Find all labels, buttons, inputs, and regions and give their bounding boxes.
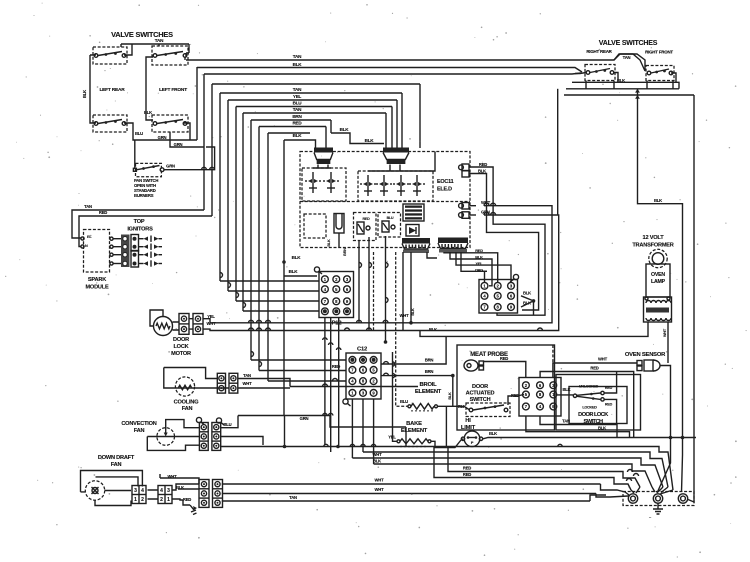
svg-text:BLU: BLU bbox=[223, 422, 231, 427]
wire broil right drop bbox=[445, 406, 447, 447]
bus drops left trapezoid bbox=[326, 120, 384, 148]
ddf connector columns bbox=[199, 480, 209, 508]
svg-text:BLU: BLU bbox=[293, 101, 303, 106]
svg-text:RED: RED bbox=[590, 366, 598, 371]
svg-text:2: 2 bbox=[497, 283, 500, 288]
wire BRN c12 upper bbox=[381, 336, 446, 364]
svg-text:TAN: TAN bbox=[623, 55, 631, 60]
wire broil to das bbox=[438, 406, 470, 409]
wire long TAN top bbox=[186, 54, 645, 70]
svg-text:RED: RED bbox=[183, 497, 191, 502]
wire grn2 bbox=[170, 132, 204, 147]
wire sensor out bbox=[660, 366, 671, 438]
svg-text:WHT: WHT bbox=[481, 200, 491, 205]
spark gap B3 bbox=[400, 175, 402, 181]
down draft conn wires bbox=[105, 490, 159, 499]
wire transformer left down bbox=[420, 322, 648, 336]
svg-text:RED: RED bbox=[605, 386, 613, 390]
svg-text:WHT: WHT bbox=[598, 357, 608, 362]
EOC dashed box bbox=[300, 152, 470, 248]
EOC relay K2 bbox=[378, 213, 401, 238]
wires motor to conn bbox=[173, 319, 194, 330]
P12 row4 fills bbox=[323, 309, 327, 313]
wires trap left to gaps bbox=[313, 165, 331, 169]
svg-text:GRN: GRN bbox=[166, 164, 175, 169]
oven sensor symbol bbox=[637, 361, 642, 366]
meat probe symbol bbox=[464, 360, 478, 371]
svg-text:BLK: BLK bbox=[144, 110, 152, 115]
wires verticals to terminals bbox=[657, 438, 694, 494]
wire y471 bbox=[448, 447, 640, 488]
svg-text:CONVECTION: CONVECTION bbox=[121, 421, 156, 427]
svg-text:1: 1 bbox=[324, 277, 327, 282]
down draft fan circle bbox=[85, 481, 104, 500]
svg-text:4: 4 bbox=[539, 404, 542, 409]
wire pan switch right bbox=[164, 147, 215, 170]
wire rvs y95 bbox=[564, 94, 694, 96]
svg-text:ELEMENT: ELEMENT bbox=[401, 428, 428, 434]
EOC connector bar P2 bbox=[438, 238, 468, 244]
valve switch left rear upper bbox=[93, 47, 127, 64]
convection fan connectors bbox=[199, 423, 208, 451]
svg-text:HI: HI bbox=[465, 418, 471, 424]
svg-text:ELEMENT: ELEMENT bbox=[415, 389, 442, 395]
connector C12 bbox=[346, 353, 381, 399]
wire y477 bbox=[434, 447, 631, 491]
svg-text:BLK: BLK bbox=[523, 291, 531, 296]
svg-text:SPARK: SPARK bbox=[88, 277, 106, 283]
svg-text:FAN: FAN bbox=[182, 406, 193, 412]
svg-text:5: 5 bbox=[525, 392, 528, 397]
wire box4 right vertical bbox=[196, 67, 198, 140]
wire rvs y84 under bbox=[572, 82, 679, 89]
svg-text:9: 9 bbox=[346, 299, 349, 304]
broil feed dashed bbox=[396, 252, 408, 406]
spark gap A2 bbox=[330, 172, 332, 178]
svg-text:BLK: BLK bbox=[292, 255, 302, 260]
spark gap B1 bbox=[367, 175, 369, 181]
spark gap group A box bbox=[302, 168, 346, 201]
svg-text:TAN: TAN bbox=[293, 87, 302, 92]
svg-text:WHT: WHT bbox=[375, 478, 385, 483]
bus wire YEL x228 bbox=[228, 99, 397, 101]
svg-text:FAN: FAN bbox=[111, 462, 122, 468]
svg-text:ELE.D: ELE.D bbox=[437, 187, 452, 193]
wire vertical x694 bbox=[693, 95, 695, 438]
wires dls right bbox=[604, 372, 616, 425]
svg-text:IGNITORS: IGNITORS bbox=[127, 227, 153, 233]
bake element bbox=[400, 439, 428, 444]
wire motor wrap wht bbox=[203, 215, 559, 331]
svg-text:BLK: BLK bbox=[489, 431, 497, 436]
relay connector grid bbox=[479, 280, 518, 314]
svg-text:RED: RED bbox=[99, 210, 107, 215]
wire box2 left down blk bbox=[146, 57, 153, 120]
svg-text:BLK: BLK bbox=[654, 198, 662, 203]
wire spark red bbox=[79, 216, 212, 247]
svg-text:7: 7 bbox=[324, 299, 327, 304]
svg-text:4: 4 bbox=[351, 379, 354, 384]
EOC down wires bbox=[339, 233, 437, 342]
wires conv out bbox=[221, 416, 263, 446]
connector P12 bbox=[319, 272, 354, 318]
plug BLK upper bbox=[462, 171, 469, 177]
oven lamp body bbox=[646, 264, 670, 297]
svg-text:SWITCH: SWITCH bbox=[470, 397, 491, 403]
svg-text:RED: RED bbox=[500, 356, 508, 361]
EOC connector bar P1 bbox=[402, 238, 430, 244]
valve switch left rear lower bbox=[93, 115, 127, 132]
wire grn1 bbox=[124, 123, 197, 140]
valve switch right front bbox=[646, 66, 674, 81]
spark gap A1 bbox=[312, 172, 314, 178]
bake dashes bbox=[400, 446, 428, 448]
svg-text:4: 4 bbox=[483, 293, 486, 298]
door lock switch inner box bbox=[569, 387, 627, 424]
svg-text:6: 6 bbox=[362, 368, 365, 373]
svg-text:ACTUATED: ACTUATED bbox=[466, 391, 495, 397]
svg-text:3: 3 bbox=[167, 488, 170, 494]
wires P2 to relay grid bbox=[444, 252, 471, 271]
wire box2 right to long tan bbox=[184, 57, 186, 60]
svg-text:RED: RED bbox=[292, 121, 302, 126]
wires trap right to gaps bbox=[368, 152, 435, 172]
svg-text:EOC11: EOC11 bbox=[437, 179, 454, 185]
arrow marks rvs bbox=[635, 89, 640, 99]
svg-text:7: 7 bbox=[351, 368, 354, 373]
wires into terminals bbox=[625, 487, 673, 496]
svg-text:8: 8 bbox=[335, 299, 338, 304]
EOC relay K1 bbox=[354, 213, 377, 241]
door lock switch outer box bbox=[556, 375, 641, 431]
bus wire line x212 bbox=[212, 83, 420, 85]
hi limit bbox=[464, 431, 480, 447]
wire BRN c12 lower bbox=[381, 376, 453, 407]
svg-text:2: 2 bbox=[160, 497, 163, 503]
svg-text:WHT: WHT bbox=[663, 328, 667, 337]
wire red plug wrap bbox=[469, 167, 545, 315]
spark gap group B box bbox=[358, 171, 433, 201]
wire pan switch feed bbox=[134, 140, 136, 168]
wire left blk vertical bbox=[90, 55, 96, 123]
convection fan loop bbox=[147, 420, 199, 451]
wire probe to grid bbox=[484, 362, 526, 378]
svg-text:7: 7 bbox=[525, 404, 528, 409]
down draft loop bbox=[81, 471, 143, 506]
EOC divider bbox=[300, 201, 470, 203]
svg-text:SWITCH: SWITCH bbox=[583, 419, 603, 425]
EOC small component bbox=[334, 214, 344, 234]
svg-text:GRN: GRN bbox=[158, 135, 167, 140]
wire bake leads bbox=[393, 352, 398, 441]
svg-text:DOOR: DOOR bbox=[472, 384, 488, 390]
ignitor transformer left bbox=[314, 148, 333, 153]
transformer bbox=[644, 297, 672, 322]
ignitor electrodes bbox=[139, 238, 144, 240]
svg-text:BROIL: BROIL bbox=[419, 382, 437, 388]
svg-text:6: 6 bbox=[539, 383, 542, 388]
ignitor connector blocks bbox=[121, 235, 130, 252]
svg-text:VALVE SWITCHES: VALVE SWITCHES bbox=[111, 30, 173, 39]
door lock motor connectors bbox=[179, 314, 189, 335]
svg-text:MOTOR: MOTOR bbox=[171, 351, 191, 357]
wire cf tan bbox=[238, 379, 290, 389]
wire rvs blk drop bbox=[575, 73, 618, 83]
svg-text:BURNERS: BURNERS bbox=[134, 193, 154, 198]
svg-text:WHT: WHT bbox=[375, 487, 385, 492]
wire RED sensor bbox=[540, 372, 634, 438]
svg-text:RED: RED bbox=[463, 466, 471, 471]
wire y452 bbox=[363, 452, 668, 487]
wire das to grid bbox=[508, 395, 524, 406]
svg-text:TAN: TAN bbox=[243, 373, 251, 378]
broil element bbox=[411, 404, 434, 410]
svg-text:12 VOLT: 12 VOLT bbox=[643, 235, 665, 241]
spark gap B4 bbox=[416, 175, 418, 181]
svg-text:BRN: BRN bbox=[425, 369, 434, 374]
svg-text:7: 7 bbox=[483, 305, 486, 310]
svg-text:C12: C12 bbox=[357, 347, 367, 353]
svg-text:3: 3 bbox=[134, 488, 137, 494]
ignitor transformer right bbox=[383, 148, 409, 153]
plug WHT bbox=[470, 205, 476, 207]
svg-text:OVEN SENSOR: OVEN SENSOR bbox=[625, 352, 666, 358]
door actuated switch bbox=[469, 408, 473, 412]
svg-text:BLK: BLK bbox=[365, 138, 375, 143]
svg-text:2: 2 bbox=[525, 383, 528, 388]
svg-text:3: 3 bbox=[346, 277, 349, 282]
svg-text:P: P bbox=[471, 440, 474, 445]
pan switch bbox=[136, 163, 162, 176]
svg-text:TAN: TAN bbox=[293, 54, 302, 59]
svg-text:TAN: TAN bbox=[155, 38, 164, 43]
C12 flag bbox=[343, 399, 348, 404]
svg-text:8: 8 bbox=[539, 392, 542, 397]
svg-text:1: 1 bbox=[351, 391, 354, 396]
svg-text:RED: RED bbox=[463, 472, 471, 477]
svg-text:YEL: YEL bbox=[293, 94, 302, 99]
svg-text:8: 8 bbox=[362, 379, 365, 384]
spark module pins bbox=[81, 237, 84, 240]
junction dot eoc out bbox=[409, 321, 413, 325]
svg-text:TAN: TAN bbox=[84, 204, 92, 209]
svg-text:WHT: WHT bbox=[373, 452, 383, 457]
wire bake right lead bbox=[431, 441, 446, 447]
C12 row1 fills bbox=[350, 358, 354, 362]
valve switch left front lower bbox=[152, 115, 188, 132]
ddf ground arrow bbox=[190, 505, 194, 510]
wire rvs feeds bbox=[614, 54, 645, 71]
svg-text:GRN: GRN bbox=[174, 142, 183, 147]
svg-text:GRN: GRN bbox=[481, 209, 490, 214]
svg-text:GRN: GRN bbox=[300, 416, 309, 421]
svg-text:VALVE SWITCHES: VALVE SWITCHES bbox=[599, 40, 658, 47]
svg-text:BRN: BRN bbox=[343, 248, 347, 256]
wire valve top tan bbox=[121, 44, 189, 57]
spark module right pins bbox=[110, 237, 113, 240]
svg-text:BRN: BRN bbox=[425, 358, 434, 363]
staircase humps bbox=[628, 470, 633, 473]
junction dot relay bbox=[532, 299, 536, 303]
wire y464 bbox=[374, 464, 652, 487]
junction dot blk bbox=[282, 260, 286, 264]
oven lamp inner circle bbox=[652, 253, 664, 265]
svg-text:BLK: BLK bbox=[411, 308, 415, 316]
svg-text:1: 1 bbox=[167, 497, 170, 503]
door lock motor loop bbox=[150, 310, 163, 326]
wire through convection fan bbox=[147, 436, 199, 438]
wires bus to P12 bbox=[220, 280, 319, 282]
bus wire line9 bbox=[268, 133, 310, 381]
wire conv drop bbox=[405, 427, 407, 447]
door lock switch common bbox=[573, 394, 576, 397]
EOC dashed square bbox=[304, 214, 326, 238]
wire rvs bottom u1 bbox=[586, 81, 673, 89]
svg-text:4: 4 bbox=[141, 488, 144, 494]
wires bus to C12 bbox=[251, 360, 346, 381]
wire y493 step bbox=[596, 494, 628, 498]
bus wire TAN x243 bbox=[243, 112, 386, 114]
door lock switch blade dn bbox=[577, 396, 601, 399]
svg-text:LOCK: LOCK bbox=[173, 344, 188, 350]
svg-text:8: 8 bbox=[497, 305, 500, 310]
down draft conn A bbox=[132, 486, 146, 504]
wire spark tan bbox=[72, 210, 204, 238]
svg-text:BAKE: BAKE bbox=[406, 421, 422, 427]
verticals under C12 bbox=[325, 318, 374, 465]
svg-text:DOOR LOCK: DOOR LOCK bbox=[578, 412, 608, 418]
svg-text:BRN: BRN bbox=[292, 114, 302, 119]
P12 flag bbox=[314, 267, 319, 272]
svg-text:9: 9 bbox=[372, 391, 375, 396]
svg-text:LIMIT: LIMIT bbox=[461, 425, 476, 431]
svg-text:RED: RED bbox=[479, 162, 487, 167]
wire grn bus bbox=[238, 416, 406, 428]
svg-text:6: 6 bbox=[346, 287, 349, 292]
svg-text:3: 3 bbox=[510, 283, 513, 288]
svg-text:RED: RED bbox=[605, 403, 613, 407]
svg-text:BLK: BLK bbox=[448, 392, 452, 400]
svg-text:COOLING: COOLING bbox=[174, 400, 199, 406]
svg-text:2: 2 bbox=[335, 277, 338, 282]
wire hilimit left bbox=[446, 439, 463, 448]
svg-text:BLU: BLU bbox=[135, 131, 143, 136]
down draft conn B bbox=[158, 486, 172, 504]
svg-text:BLK: BLK bbox=[340, 127, 350, 132]
svg-text:BLK: BLK bbox=[478, 169, 486, 174]
wire BLK grid col1 down bbox=[526, 416, 630, 438]
svg-text:1: 1 bbox=[134, 497, 137, 503]
svg-text:LAMP: LAMP bbox=[651, 279, 666, 285]
svg-text:TAN: TAN bbox=[293, 107, 302, 112]
svg-text:RED: RED bbox=[363, 217, 371, 221]
svg-text:BLU: BLU bbox=[400, 399, 408, 404]
svg-text:WHT: WHT bbox=[243, 381, 253, 386]
relay grid flag bbox=[513, 274, 518, 279]
wire motor wrap yel bbox=[203, 206, 552, 323]
wire transformer right down bbox=[667, 322, 669, 363]
bus wire BLK x284 bbox=[284, 140, 317, 416]
svg-text:LOCKED: LOCKED bbox=[582, 406, 597, 410]
cooling fan bbox=[175, 377, 194, 396]
cooling fan loop bbox=[164, 368, 218, 389]
svg-text:MODULE: MODULE bbox=[85, 285, 109, 291]
wire grid blk right bbox=[557, 394, 573, 396]
spark module box bbox=[84, 230, 110, 273]
svg-text:9: 9 bbox=[510, 305, 513, 310]
wires ddf buses bbox=[222, 484, 601, 501]
EOC diode bbox=[406, 225, 419, 237]
bus wire BRN x251 bbox=[251, 119, 331, 121]
bus wire TAN x220 bbox=[220, 92, 402, 94]
junction dot c12 top bbox=[384, 340, 388, 344]
svg-text:5: 5 bbox=[372, 368, 375, 373]
svg-text:BLU: BLU bbox=[387, 216, 394, 220]
convection fan bbox=[157, 428, 175, 446]
svg-text:DOWN DRAFT: DOWN DRAFT bbox=[98, 455, 135, 461]
wire y483 step bbox=[601, 484, 626, 492]
svg-text:4: 4 bbox=[160, 488, 163, 494]
bus wire BLU x236 bbox=[236, 106, 392, 108]
svg-text:FAN: FAN bbox=[134, 428, 145, 434]
wire WHT sensor bbox=[553, 363, 637, 378]
wire right loop to terminal bbox=[688, 441, 694, 502]
svg-text:2: 2 bbox=[141, 497, 144, 503]
svg-text:BLK: BLK bbox=[327, 239, 331, 247]
svg-text:5: 5 bbox=[335, 287, 338, 292]
wires ddf to cols bbox=[160, 474, 199, 505]
svg-text:N: N bbox=[85, 244, 88, 248]
svg-text:RIGHT FRONT: RIGHT FRONT bbox=[645, 50, 673, 55]
wire blk plug wrap bbox=[469, 174, 539, 311]
door lock switch blade up bbox=[577, 393, 601, 395]
svg-text:BLK: BLK bbox=[82, 90, 87, 98]
terminal L2 bbox=[678, 494, 687, 503]
valve switch left front upper bbox=[152, 46, 188, 65]
svg-text:DOOR: DOOR bbox=[173, 337, 189, 343]
wire cf bus bbox=[290, 386, 418, 388]
door lock motor bbox=[154, 317, 173, 336]
svg-text:BLK: BLK bbox=[293, 62, 303, 67]
wire through cooling fan bbox=[175, 387, 229, 389]
humps wrap bbox=[357, 320, 362, 323]
terminal block dashed box bbox=[623, 492, 694, 506]
wire y501 step bbox=[590, 495, 606, 501]
spark gap B2 bbox=[383, 175, 385, 181]
terminal L1 bbox=[628, 494, 637, 503]
wire rvs bottom u2 bbox=[566, 73, 679, 89]
door connector grid bbox=[519, 378, 561, 417]
svg-text:TOP: TOP bbox=[134, 219, 145, 225]
svg-text:UNLOCKED: UNLOCKED bbox=[579, 385, 599, 389]
svg-text:3: 3 bbox=[362, 391, 365, 396]
svg-text:TRANSFORMER: TRANSFORMER bbox=[632, 243, 673, 249]
svg-text:4: 4 bbox=[324, 287, 327, 292]
EOC terminal strip bbox=[403, 204, 424, 221]
terminal ground bbox=[657, 504, 659, 510]
svg-text:WHT: WHT bbox=[400, 313, 410, 318]
valve switch right rear bbox=[585, 65, 615, 81]
svg-text:2: 2 bbox=[372, 379, 375, 384]
wire hilimit out H1 bbox=[483, 438, 696, 439]
svg-text:1: 1 bbox=[483, 283, 486, 288]
wires blk to dot bbox=[521, 296, 534, 315]
junction dots H1 bbox=[669, 436, 673, 440]
svg-text:BLK: BLK bbox=[429, 327, 437, 332]
bus drops to right trapezoid bbox=[386, 84, 420, 148]
conv conn flags bbox=[196, 417, 201, 422]
EOC dashed drop bbox=[373, 252, 375, 330]
